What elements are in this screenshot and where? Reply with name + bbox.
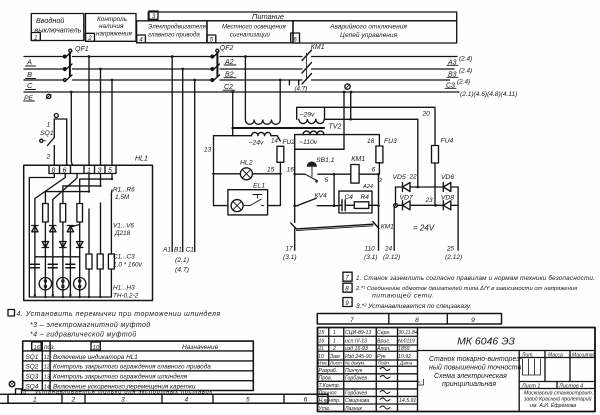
svg-text:Д218: Д218 bbox=[114, 230, 131, 237]
lamp EL1 bbox=[231, 200, 243, 212]
svg-text:B: B bbox=[27, 70, 32, 79]
earth symbol on N right bbox=[345, 84, 350, 89]
svg-text:3: 3 bbox=[121, 397, 125, 404]
partial export row bbox=[16, 389, 22, 395]
svg-text:Горбачев: Горбачев bbox=[345, 376, 367, 382]
resistor R5 bbox=[97, 254, 103, 269]
svg-text:1. Станок заземлить согласно: 1. Станок заземлить согласно правилам и … bbox=[356, 274, 595, 282]
svg-text:Вриг.: Вриг. bbox=[377, 339, 390, 345]
wire common node to 16 bbox=[295, 148, 344, 150]
svg-text:1,5М: 1,5М bbox=[115, 194, 130, 201]
svg-text:Питание: Питание bbox=[252, 12, 284, 21]
wire terminal 6 to diode branch 1 bbox=[35, 174, 65, 296]
svg-text:9: 9 bbox=[345, 300, 349, 307]
column 2 wire bbox=[62, 222, 64, 297]
svg-text:Аварийного отключения: Аварийного отключения bbox=[329, 23, 407, 31]
svg-text:25: 25 bbox=[446, 246, 455, 253]
header box "Электродвигателя главного привода" zone 4 bbox=[137, 21, 207, 44]
header box "Контроль наличия напряжения" zone 2 bbox=[86, 14, 137, 43]
svg-text:Электродвигателя: Электродвигателя bbox=[148, 24, 207, 31]
svg-text:SQ1: SQ1 bbox=[26, 354, 39, 361]
svg-text:2.*¹ Соединение обмоток двиг: 2.*¹ Соединение обмоток двигателей типа … bbox=[355, 285, 578, 292]
header strip "Питание" zone 3 bbox=[148, 11, 456, 21]
svg-text:HL2: HL2 bbox=[240, 160, 253, 167]
svg-text:Рук.: Рук. bbox=[377, 354, 387, 360]
svg-text:V1...V6: V1...V6 bbox=[113, 223, 134, 230]
control circuit bbox=[283, 149, 394, 261]
svg-text:13: 13 bbox=[204, 147, 212, 154]
wire PE down to core bbox=[232, 92, 234, 136]
wire terminal 8 to bottom bus bbox=[29, 174, 54, 298]
svg-text:МК 6046 ЭЗ: МК 6046 ЭЗ bbox=[457, 336, 515, 348]
capacitor C4 bbox=[342, 200, 345, 211]
svg-text:№0119: №0119 bbox=[398, 339, 415, 345]
svg-text:Серг.: Серг. bbox=[377, 330, 391, 336]
title block bbox=[318, 328, 596, 412]
wire to terminal 25 bbox=[457, 205, 459, 250]
resistor R3 bbox=[77, 204, 83, 223]
diode V2 bbox=[50, 226, 56, 232]
svg-text:главного привода: главного привода bbox=[148, 32, 200, 39]
lamp H2 bbox=[57, 278, 69, 290]
fuse FU2 bbox=[277, 146, 284, 162]
svg-text:5: 5 bbox=[325, 177, 329, 184]
local lighting box 13 with HL2 EL1 bbox=[204, 136, 295, 215]
zone strip 7 8 9 bbox=[317, 314, 501, 325]
svg-text:15: 15 bbox=[319, 330, 325, 336]
svg-text:4: 4 bbox=[185, 397, 189, 404]
svg-text:6: 6 bbox=[63, 168, 67, 175]
svg-text:Принял: Принял bbox=[319, 391, 337, 397]
svg-text:(2.4): (2.4) bbox=[459, 67, 472, 74]
svg-text:*2: *2 bbox=[377, 178, 382, 184]
wire to terminal 110 bbox=[378, 226, 380, 250]
svg-text:Смирнова: Смирнова bbox=[345, 398, 369, 404]
wire neutral/PE line bbox=[24, 91, 459, 93]
wire common to bridge bbox=[351, 92, 418, 187]
svg-text:(2.12): (2.12) bbox=[445, 254, 462, 261]
left rows bbox=[318, 336, 418, 404]
svg-text:11: 11 bbox=[319, 346, 324, 352]
lamp H1 bbox=[39, 278, 51, 290]
svg-text:Алин.: Алин. bbox=[376, 346, 391, 352]
svg-text:FU2: FU2 bbox=[283, 139, 296, 146]
designation cell bbox=[418, 350, 596, 352]
svg-text:QF1: QF1 bbox=[75, 46, 89, 53]
primary winding bbox=[245, 120, 280, 124]
wire common to 110v return bbox=[343, 92, 345, 135]
svg-text:Пров.: Пров. bbox=[319, 376, 333, 382]
svg-text:R1...R6: R1...R6 bbox=[113, 187, 135, 194]
svg-text:4. Установить перемычки при: 4. Установить перемычки при торможении ш… bbox=[17, 310, 221, 318]
zone strip 1-6 bbox=[0, 394, 328, 403]
svg-text:17: 17 bbox=[286, 246, 294, 253]
svg-text:Подп.: Подп. bbox=[378, 361, 390, 366]
asterisk mark bbox=[9, 381, 15, 387]
contactor main contacts KM1 bbox=[302, 44, 325, 84]
svg-text:Зам: Зам bbox=[330, 354, 340, 360]
wire phase line A bbox=[24, 56, 457, 58]
svg-text:FU3: FU3 bbox=[384, 138, 397, 145]
switch purpose table bbox=[9, 341, 253, 395]
svg-text:В1: В1 bbox=[174, 247, 182, 254]
svg-text:R4: R4 bbox=[361, 194, 370, 201]
winding ~29v box bbox=[297, 107, 325, 119]
svg-text:(3.1): (3.1) bbox=[283, 254, 297, 261]
svg-text:13: 13 bbox=[44, 375, 51, 381]
svg-text:1,0 * 160v: 1,0 * 160v bbox=[113, 262, 143, 269]
svg-text:~29v: ~29v bbox=[300, 112, 316, 119]
wire 20 from 29v to FU4 bbox=[325, 107, 436, 145]
svg-text:6: 6 bbox=[372, 167, 376, 174]
svg-text:№ докум.: № докум. bbox=[345, 361, 365, 366]
svg-text:30.11.84: 30.11.84 bbox=[398, 330, 418, 336]
svg-text:22: 22 bbox=[409, 174, 418, 181]
svg-text:А24: А24 bbox=[362, 184, 373, 190]
svg-text:1: 1 bbox=[47, 122, 51, 129]
resistor R2 bbox=[60, 204, 66, 223]
svg-text:к:: к: bbox=[418, 380, 422, 385]
indicator block HL1 bbox=[24, 156, 153, 301]
svg-text:питающей сети.: питающей сети. bbox=[372, 292, 435, 300]
wire box13 top and left bbox=[214, 136, 252, 206]
svg-text:2: 2 bbox=[46, 154, 51, 161]
svg-text:исп.IV-13: исп.IV-13 bbox=[345, 339, 367, 345]
svg-text:3.*² Устанавливается по спец: 3.*² Устанавливается по спецзаказу. bbox=[356, 303, 472, 310]
svg-text:(2.1): (2.1) bbox=[175, 257, 189, 264]
inner bus of HL1 bbox=[35, 256, 80, 258]
svg-text:Московский станкостроит.: Московский станкостроит. bbox=[524, 390, 593, 397]
header box "Вводной выключатель" zone 1 bbox=[31, 14, 84, 42]
svg-text:HL1: HL1 bbox=[135, 156, 148, 163]
svg-text:сигнализации: сигнализации bbox=[230, 32, 271, 39]
svg-text:Разраб.: Разраб. bbox=[319, 368, 338, 374]
svg-text:Назначение: Назначение bbox=[182, 344, 219, 351]
wire B to HL1 terminal 3 bbox=[100, 69, 102, 165]
svg-text:Лит.: Лит. bbox=[521, 352, 534, 358]
column 1 wire bbox=[44, 222, 46, 297]
svg-text:8: 8 bbox=[345, 286, 349, 293]
svg-text:~24v: ~24v bbox=[249, 140, 265, 147]
contactor contact KM1 (holding) bbox=[291, 222, 379, 229]
wire 6 down bbox=[378, 174, 380, 226]
diode V3 bbox=[67, 226, 73, 232]
svg-text:10.92: 10.92 bbox=[398, 354, 411, 360]
wire coil branch down bbox=[333, 174, 335, 206]
svg-text:Цепей управления: Цепей управления bbox=[340, 31, 398, 39]
svg-text:поз.: поз. bbox=[44, 344, 55, 351]
column 3 wires and branch bbox=[70, 222, 79, 297]
svg-text:SQ3: SQ3 bbox=[26, 374, 39, 381]
svg-text:выключатель: выключатель bbox=[35, 26, 82, 35]
svg-text:SQ1: SQ1 bbox=[40, 130, 54, 137]
svg-text:1: 1 bbox=[333, 339, 336, 345]
svg-text:Масштаб: Масштаб bbox=[572, 352, 596, 358]
svg-text:Масса: Масса bbox=[548, 352, 563, 358]
change rows scribbles bbox=[318, 330, 418, 360]
svg-text:изд 16-93: изд 16-93 bbox=[345, 346, 368, 352]
svg-text:1859: 1859 bbox=[398, 346, 410, 352]
svg-text:10: 10 bbox=[93, 345, 100, 351]
wire to terminal 24 bbox=[393, 207, 395, 250]
svg-text:ЕL1: ЕL1 bbox=[253, 183, 265, 190]
wire phase line B bbox=[24, 68, 454, 70]
junction dots on buses bbox=[88, 55, 91, 58]
svg-text:1: 1 bbox=[333, 330, 336, 336]
svg-text:(4.7): (4.7) bbox=[295, 86, 308, 93]
capacitor C3 bbox=[66, 264, 75, 268]
svg-text:QF2: QF2 bbox=[220, 45, 234, 52]
svg-text:(3.1): (3.1) bbox=[364, 254, 378, 261]
svg-text:ТV2: ТV2 bbox=[329, 124, 342, 131]
svg-text:110: 110 bbox=[365, 246, 376, 253]
svg-text:Вводной: Вводной bbox=[36, 16, 64, 25]
svg-text:15: 15 bbox=[267, 167, 275, 174]
svg-text:Изд 245-90: Изд 245-90 bbox=[345, 354, 372, 360]
right column bbox=[518, 351, 520, 412]
svg-text:ный повышенной точности: ный повышенной точности bbox=[429, 364, 522, 372]
wire 29v to bridge bbox=[325, 118, 418, 120]
resistor R1 bbox=[43, 204, 49, 223]
svg-text:(2.12): (2.12) bbox=[383, 254, 400, 261]
fuse FU4 bbox=[432, 146, 439, 164]
svg-text:14: 14 bbox=[271, 138, 278, 145]
svg-text:им. А.И. Ефремова: им. А.И. Ефремова bbox=[530, 403, 576, 409]
svg-text:24: 24 bbox=[384, 246, 393, 253]
svg-text:Контроль закрытого ограждени: Контроль закрытого ограждения главного п… bbox=[53, 363, 211, 371]
transformer TV2 bbox=[231, 57, 417, 150]
wires EL1 loop bbox=[214, 174, 281, 206]
svg-text:5: 5 bbox=[246, 397, 250, 404]
fuse FU3 bbox=[376, 146, 383, 163]
notes 1-3 bbox=[343, 272, 595, 310]
core line bbox=[233, 127, 324, 129]
svg-text:16: 16 bbox=[319, 339, 325, 345]
svg-text:7: 7 bbox=[345, 275, 349, 282]
svg-text:Включение индикатора HL1: Включение индикатора HL1 bbox=[53, 353, 138, 361]
svg-text:Т.Контр.: Т.Контр. bbox=[319, 383, 341, 389]
wire stubs to (4.7) bbox=[289, 80, 298, 85]
diode V4 bbox=[42, 242, 48, 248]
svg-text:(2.4): (2.4) bbox=[457, 79, 470, 86]
svg-text:6: 6 bbox=[304, 397, 308, 404]
svg-text:*4 – гидравлической муфтой: *4 – гидравлической муфтой bbox=[30, 331, 137, 339]
header box "Местного освещения сигнализации" zone 5 bbox=[207, 21, 293, 44]
wire PE to HL1 blank terminal bbox=[71, 92, 74, 165]
svg-text:7: 7 bbox=[350, 317, 354, 324]
svg-text:Н1...Н3: Н1...Н3 bbox=[113, 285, 135, 292]
circuit breaker QF1 bbox=[63, 46, 88, 82]
svg-text:Горбачев: Горбачев bbox=[345, 391, 367, 397]
svg-text:Станок токарно-винторез-: Станок токарно-винторез- bbox=[429, 356, 523, 363]
lamp H3 bbox=[74, 278, 86, 290]
header box "Аварийного отключения Цепей управления" zone 6 bbox=[291, 21, 457, 44]
wire phase line C bbox=[24, 79, 450, 81]
diode V5 bbox=[60, 242, 66, 248]
snubber box C4 R4 bbox=[339, 191, 372, 213]
svg-text:20: 20 bbox=[422, 111, 431, 118]
footnotes bottom-left bbox=[8, 310, 221, 339]
DC supply section bbox=[325, 92, 463, 261]
svg-text:наличия: наличия bbox=[99, 23, 124, 30]
svg-text:С1: С1 bbox=[186, 247, 195, 254]
circuit breaker QF2 bbox=[211, 45, 234, 82]
wire B to B1 bbox=[182, 69, 184, 252]
svg-text:Листов 4: Листов 4 bbox=[558, 383, 583, 389]
svg-text:(2.1)(4.6)(4.8)(4.11): (2.1)(4.6)(4.8)(4.11) bbox=[460, 91, 517, 98]
svg-text:Дата: Дата bbox=[399, 361, 413, 366]
winding ~110v bbox=[303, 131, 324, 135]
svg-text:1: 1 bbox=[33, 397, 37, 404]
svg-text:КМ1: КМ1 bbox=[351, 156, 365, 163]
limit switch SQ1 bbox=[40, 114, 67, 166]
wire 16 vertical bbox=[294, 149, 296, 222]
svg-text:Контроль: Контроль bbox=[97, 16, 127, 23]
svg-text:2: 2 bbox=[332, 346, 336, 352]
wire to terminal 17 bbox=[294, 229, 296, 251]
svg-text:Лазник: Лазник bbox=[344, 406, 362, 412]
svg-text:С1...С3: С1...С3 bbox=[113, 254, 135, 261]
svg-text:VD5: VD5 bbox=[393, 174, 406, 181]
diode bridge rails bbox=[396, 187, 459, 205]
crossover wires from terminals to columns bbox=[80, 174, 112, 204]
svg-text:А1: А1 bbox=[162, 247, 171, 254]
svg-text:Пинчук: Пинчук bbox=[345, 368, 363, 374]
svg-text:8: 8 bbox=[415, 317, 419, 324]
switch in EL1 bbox=[250, 195, 264, 206]
signatures squiggles bbox=[380, 368, 390, 410]
wire 110v to FU3 bbox=[344, 135, 379, 146]
svg-text:ТН-0,2-2: ТН-0,2-2 bbox=[113, 293, 139, 300]
wire A to HL1 terminal 1 bbox=[88, 57, 90, 166]
svg-text:VD7: VD7 bbox=[400, 195, 413, 202]
svg-text:~110v: ~110v bbox=[299, 139, 318, 146]
svg-text:23: 23 bbox=[425, 197, 434, 204]
resistor R4 bbox=[86, 254, 92, 269]
wire C to primary bbox=[279, 80, 281, 120]
svg-text:Изм.: Изм. bbox=[318, 361, 328, 366]
diode V6 bbox=[77, 242, 83, 248]
svg-text:C: C bbox=[27, 81, 33, 90]
resistor R6 bbox=[108, 254, 114, 269]
wire 24v to FU2 bbox=[271, 136, 280, 141]
wire A to A1 bbox=[171, 57, 173, 252]
svg-text:A: A bbox=[26, 58, 32, 67]
svg-text:SВ1.1: SВ1.1 bbox=[316, 157, 335, 164]
svg-text:*3 – электромагнитной муфтой: *3 – электромагнитной муфтой bbox=[30, 321, 151, 329]
resistor R4 bbox=[354, 202, 369, 209]
terminal strip 8 6 _ 1 3 5 bbox=[49, 165, 116, 173]
svg-text:= 24V: = 24V bbox=[413, 224, 435, 233]
svg-text:VD6: VD6 bbox=[441, 174, 454, 181]
earth symbol on PE left bbox=[46, 94, 51, 99]
svg-text:FU4: FU4 bbox=[441, 138, 454, 145]
svg-text:Схема электрическая: Схема электрическая bbox=[434, 373, 507, 380]
wires resistors R4-R6 bbox=[89, 190, 112, 297]
svg-text:завод Красный пролетарий: завод Красный пролетарий bbox=[523, 396, 592, 403]
wire C to HL1 terminal 5 bbox=[111, 80, 113, 165]
svg-text:1: 1 bbox=[34, 35, 37, 41]
sheet mark small bbox=[418, 379, 424, 385]
svg-text:11: 11 bbox=[44, 355, 50, 361]
winding ~24v bbox=[252, 132, 272, 135]
svg-text:Контроль закрытого ограждени: Контроль закрытого ограждения шпинделя bbox=[53, 373, 188, 381]
connector circle 24 bbox=[394, 203, 398, 207]
wire blank terminal to diode branch 2 bbox=[53, 174, 77, 296]
svg-text:СЦИ-89-13: СЦИ-89-13 bbox=[345, 330, 371, 336]
svg-text:18: 18 bbox=[367, 138, 375, 145]
svg-text:14.5.91: 14.5.91 bbox=[399, 398, 416, 404]
wire C to C1 bbox=[194, 80, 196, 252]
svg-text:2: 2 bbox=[71, 397, 76, 404]
svg-text:напряжения: напряжения bbox=[96, 31, 132, 38]
svg-text:КМ1: КМ1 bbox=[381, 224, 394, 231]
svg-text:Местного освещения: Местного освещения bbox=[222, 24, 286, 31]
svg-text:16: 16 bbox=[34, 345, 41, 351]
svg-text:КМ1: КМ1 bbox=[311, 44, 325, 51]
svg-text:Лист: Лист bbox=[329, 361, 342, 366]
wire A to primary bbox=[244, 57, 246, 121]
svg-text:12: 12 bbox=[44, 365, 51, 371]
svg-text:SQ2: SQ2 bbox=[26, 364, 39, 371]
svg-text:Утв.: Утв. bbox=[319, 406, 331, 412]
bottom bus of HL1 bbox=[29, 296, 111, 298]
capacitor C1 bbox=[30, 264, 39, 268]
diode V1 bbox=[32, 226, 38, 232]
svg-text:16: 16 bbox=[287, 167, 295, 174]
left columns bbox=[329, 328, 418, 412]
capacitor C2 bbox=[48, 264, 57, 268]
svg-text:10: 10 bbox=[318, 354, 324, 360]
svg-text:Лист 1: Лист 1 bbox=[521, 383, 540, 389]
svg-text:(4.7): (4.7) bbox=[175, 267, 189, 274]
svg-text:(2.4): (2.4) bbox=[459, 56, 472, 63]
svg-text:2: 2 bbox=[87, 36, 92, 42]
svg-text:Н.контр.: Н.контр. bbox=[319, 398, 341, 404]
wire SQ1 to terminal 6 bbox=[66, 119, 68, 165]
svg-text:принципиальная: принципиальная bbox=[442, 381, 496, 388]
svg-text:9: 9 bbox=[471, 317, 475, 324]
